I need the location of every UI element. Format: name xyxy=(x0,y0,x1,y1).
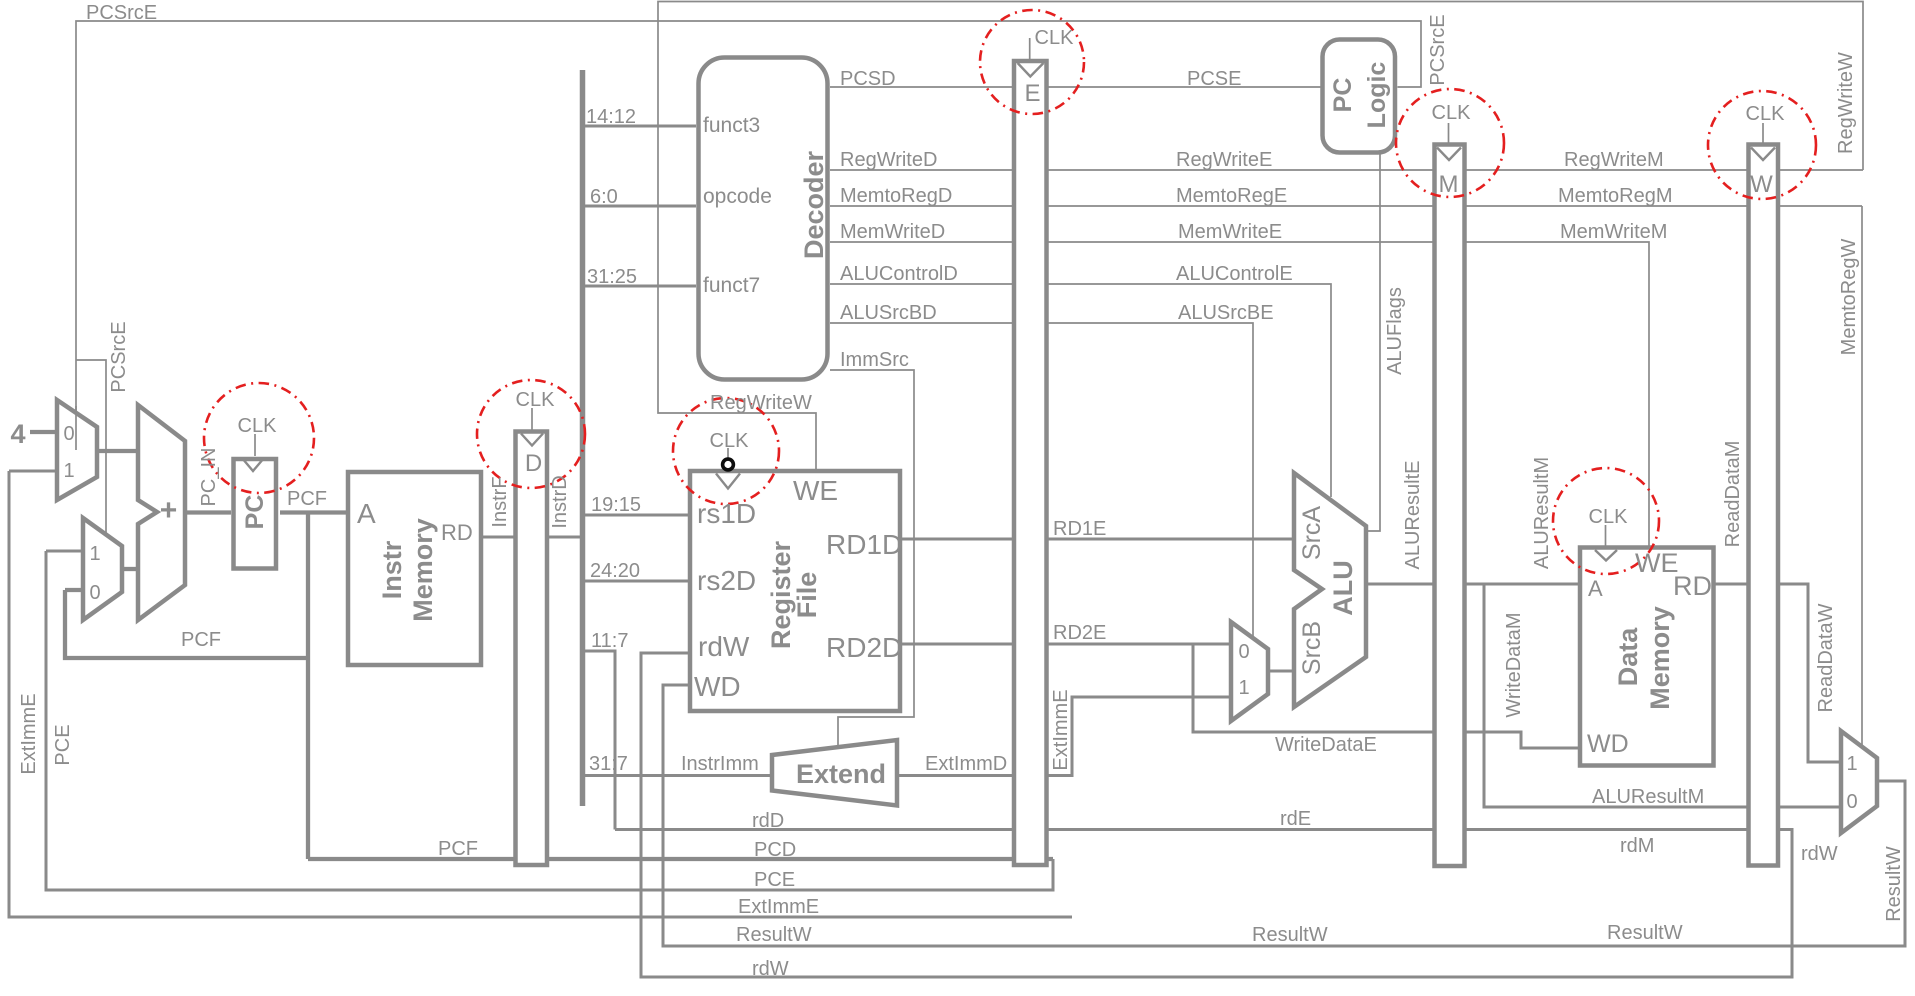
wire bus tap 24:20 xyxy=(584,580,688,583)
svg-text:CLK: CLK xyxy=(710,430,750,452)
svg-text:M: M xyxy=(1439,171,1459,198)
svg-text:WE: WE xyxy=(793,475,838,506)
svg-text:ALUSrcBD: ALUSrcBD xyxy=(840,302,937,324)
wire ALUResultE/ALUResultM to Data Memory A xyxy=(1366,583,1578,586)
svg-text:0: 0 xyxy=(1846,791,1857,813)
CLKDECOR xyxy=(76,10,1816,574)
clk circle PC xyxy=(204,383,314,493)
svg-text:WriteDataM: WriteDataM xyxy=(1503,612,1525,717)
data memory xyxy=(1580,548,1714,766)
svg-text:rdM: rdM xyxy=(1620,835,1654,857)
wire adder output PC_IN xyxy=(185,510,231,514)
wire ExtImmD from Extend to E xyxy=(897,697,1231,776)
svg-text:RD2D: RD2D xyxy=(826,632,902,663)
svg-text:ResultW: ResultW xyxy=(1252,924,1328,946)
bus instruction vertical xyxy=(580,70,586,806)
svg-text:CLK: CLK xyxy=(1746,103,1786,125)
svg-text:Memory: Memory xyxy=(1645,606,1675,710)
svg-text:PCSrcE: PCSrcE xyxy=(86,2,157,24)
svg-text:PCSE: PCSE xyxy=(1187,68,1241,90)
svg-text:rs2D: rs2D xyxy=(697,565,756,596)
wire mux M2 input 0 (PCF) xyxy=(65,590,308,658)
svg-text:RegWriteW: RegWriteW xyxy=(1835,52,1857,154)
svg-text:CLK: CLK xyxy=(238,415,278,437)
svg-text:funct7: funct7 xyxy=(703,274,760,297)
svg-text:PCE: PCE xyxy=(754,869,795,891)
clk tick M xyxy=(1448,123,1450,144)
mux SrcB (0 / 1) xyxy=(1231,622,1268,721)
svg-text:rdE: rdE xyxy=(1280,808,1311,830)
svg-text:WriteDataE: WriteDataE xyxy=(1275,734,1377,756)
wire PCSrcE select stub into mux M1 xyxy=(75,406,77,450)
wire bus tap 6:0 xyxy=(584,205,696,208)
register file xyxy=(690,471,900,711)
svg-text:Data: Data xyxy=(1613,627,1643,687)
wire PCF branch down xyxy=(306,513,310,860)
svg-text:1: 1 xyxy=(1238,677,1249,699)
clk triangle M xyxy=(1437,148,1461,161)
svg-text:14:12: 14:12 xyxy=(586,106,636,128)
clk circle W xyxy=(1708,91,1816,199)
svg-text:ALUResultM: ALUResultM xyxy=(1592,786,1704,808)
svg-text:ReadDataW: ReadDataW xyxy=(1815,603,1837,712)
pipeline register W xyxy=(1749,145,1779,866)
wire SrcB mux output xyxy=(1268,670,1294,673)
svg-text:MemWriteD: MemWriteD xyxy=(840,221,945,243)
svg-text:ALUFlags: ALUFlags xyxy=(1384,287,1406,375)
wire bus tap 11:7 to rdD xyxy=(584,651,615,830)
svg-text:PC: PC xyxy=(241,495,269,530)
wire ReadDataM/ReadDataW xyxy=(1714,584,1841,762)
svg-text:Logic: Logic xyxy=(1363,62,1391,129)
wire RegWrite D/E/M xyxy=(830,169,1863,171)
svg-text:ExtImmE: ExtImmE xyxy=(1050,689,1072,770)
clk triangle D xyxy=(521,434,543,446)
svg-text:opcode: opcode xyxy=(703,185,772,208)
svg-text:RD1E: RD1E xyxy=(1053,518,1106,540)
svg-text:rdD: rdD xyxy=(752,810,784,832)
wire RD to D register (InstrF/InstrD) xyxy=(481,536,584,539)
adder PC+ xyxy=(138,405,185,620)
svg-text:PC: PC xyxy=(1329,78,1357,113)
svg-text:ALUResultM: ALUResultM xyxy=(1531,457,1553,569)
pipeline register D xyxy=(516,432,548,866)
wire ALUFlags xyxy=(1366,154,1380,531)
PC logic xyxy=(1323,40,1396,153)
svg-text:1: 1 xyxy=(63,460,74,482)
svg-text:31:25: 31:25 xyxy=(587,266,637,288)
clk tick DM xyxy=(1605,525,1607,547)
svg-text:MemtoRegE: MemtoRegE xyxy=(1176,185,1287,207)
svg-text:ResultW: ResultW xyxy=(1883,846,1905,922)
svg-text:ALUSrcBE: ALUSrcBE xyxy=(1178,302,1274,324)
mux M2 (PCE / PCF) xyxy=(83,518,122,620)
svg-text:A: A xyxy=(1588,576,1603,601)
wire WriteDataE branch xyxy=(1193,644,1578,748)
svg-text:RD2E: RD2E xyxy=(1053,622,1106,644)
svg-text:PCSD: PCSD xyxy=(840,68,896,90)
svg-text:MemtoRegW: MemtoRegW xyxy=(1838,239,1860,356)
clk circle DM xyxy=(1553,468,1659,574)
svg-text:PC_IN: PC_IN xyxy=(198,448,220,507)
svg-text:ALU: ALU xyxy=(1328,560,1358,616)
svg-text:File: File xyxy=(792,572,822,619)
svg-text:CLK: CLK xyxy=(1035,27,1075,49)
clk circle E xyxy=(980,10,1084,114)
wire MemtoRegW select xyxy=(1861,206,1863,745)
wire result mux output ResultW xyxy=(663,685,1905,946)
svg-text:MemWriteE: MemWriteE xyxy=(1178,221,1282,243)
svg-text:ALUResultE: ALUResultE xyxy=(1402,461,1424,570)
svg-text:D: D xyxy=(525,450,542,477)
svg-text:SrcA: SrcA xyxy=(1298,506,1326,561)
extend unit xyxy=(772,740,897,806)
svg-text:31:7: 31:7 xyxy=(589,753,628,775)
clk tick E xyxy=(1029,38,1031,60)
svg-text:PCF: PCF xyxy=(181,629,221,651)
wire bus tap 31:7 InstrImm xyxy=(584,774,772,777)
svg-text:+: + xyxy=(160,494,178,527)
wire ALUControl D/E xyxy=(830,284,1331,497)
svg-text:Decoder: Decoder xyxy=(799,150,829,259)
svg-text:4: 4 xyxy=(10,419,25,449)
svg-text:rdW: rdW xyxy=(698,631,750,662)
svg-text:RegWriteW: RegWriteW xyxy=(710,392,812,414)
clk triangle RF xyxy=(716,474,740,489)
wire RegWriteW feedback xyxy=(658,2,1863,470)
wire ExtImmE feedback vertical xyxy=(9,471,1072,917)
wire MemWrite D/E/M xyxy=(830,242,1649,546)
clk triangle DM xyxy=(1595,550,1617,561)
svg-text:PCD: PCD xyxy=(754,839,796,861)
svg-text:24:20: 24:20 xyxy=(590,560,640,582)
clk circle D xyxy=(477,380,585,488)
svg-text:E: E xyxy=(1024,80,1040,107)
wire MemtoReg D/E/M xyxy=(830,205,1862,207)
clk circle M xyxy=(1396,89,1504,197)
svg-text:CLK: CLK xyxy=(516,389,556,411)
svg-text:Extend: Extend xyxy=(796,759,886,789)
svg-text:RD: RD xyxy=(1673,571,1712,601)
svg-text:19:15: 19:15 xyxy=(591,494,641,516)
clk bubble RF xyxy=(723,459,734,470)
clk triangle W xyxy=(1751,148,1775,161)
svg-text:Memory: Memory xyxy=(408,518,438,622)
svg-text:InstrF: InstrF xyxy=(489,476,511,527)
svg-text:rs1D: rs1D xyxy=(697,498,756,529)
wire ALUResultM branch to result mux xyxy=(1484,584,1841,807)
svg-text:MemtoRegD: MemtoRegD xyxy=(840,185,952,207)
decoder xyxy=(699,58,828,380)
clk tick D xyxy=(531,408,533,431)
svg-text:0: 0 xyxy=(89,582,100,604)
svg-text:funct3: funct3 xyxy=(703,114,760,137)
svg-text:SrcB: SrcB xyxy=(1298,621,1326,675)
wire PCE feedback xyxy=(46,551,1053,890)
clk tick PC xyxy=(254,434,256,456)
svg-text:InstrImm: InstrImm xyxy=(681,753,759,775)
svg-text:WD: WD xyxy=(1587,730,1629,758)
svg-text:0: 0 xyxy=(63,423,74,445)
wire bus tap 19:15 xyxy=(584,514,688,517)
svg-text:rdW: rdW xyxy=(1801,843,1838,865)
wire rdD/rdE/rdM through E M W xyxy=(615,653,1792,977)
wire ALUSrcB D/E xyxy=(830,323,1253,638)
wire bus tap 14:12 xyxy=(584,125,696,128)
svg-text:ReadDataM: ReadDataM xyxy=(1722,441,1744,548)
wire RD2D/RD2E to SrcB mux xyxy=(902,643,1231,646)
svg-text:0: 0 xyxy=(1238,641,1249,663)
svg-text:ALUControlD: ALUControlD xyxy=(840,263,958,285)
svg-text:WD: WD xyxy=(694,671,741,702)
svg-text:RegWriteM: RegWriteM xyxy=(1564,149,1664,171)
wire RD1D/RD1E to ALU SrcA xyxy=(902,538,1294,541)
mux Result (ReadDataW / ALUResultM) xyxy=(1841,731,1877,833)
svg-text:rdW: rdW xyxy=(752,958,789,980)
svg-text:W: W xyxy=(1750,171,1773,198)
clk triangle PC xyxy=(242,458,264,471)
svg-text:PCSrcE: PCSrcE xyxy=(1427,14,1449,85)
svg-text:6:0: 6:0 xyxy=(590,186,618,208)
svg-text:ALUControlE: ALUControlE xyxy=(1176,263,1293,285)
instruction memory xyxy=(348,472,481,665)
svg-text:RegWriteD: RegWriteD xyxy=(840,149,937,171)
wire mux M2 output to adder xyxy=(122,567,138,571)
svg-text:CLK: CLK xyxy=(1589,506,1629,528)
wire constant 4 input xyxy=(30,430,57,434)
clk tick RF xyxy=(727,448,729,458)
wire PCSrcE select xyxy=(76,21,1421,534)
clk tick W xyxy=(1762,123,1764,144)
svg-text:MemtoRegM: MemtoRegM xyxy=(1558,185,1672,207)
svg-text:RD1D: RD1D xyxy=(826,529,902,560)
svg-text:ResultW: ResultW xyxy=(736,924,812,946)
svg-text:1: 1 xyxy=(89,543,100,565)
svg-text:RD: RD xyxy=(441,520,473,545)
svg-text:PCF: PCF xyxy=(287,488,327,510)
pipeline register M xyxy=(1435,145,1465,867)
clk triangle E xyxy=(1018,63,1044,77)
pipeline register E xyxy=(1014,61,1047,865)
wire mux M1 output to adder xyxy=(97,449,138,453)
wire mux M1 input 1 (ExtImmE) xyxy=(9,470,57,473)
mux M1 (4 / ExtImmE) xyxy=(57,400,97,500)
svg-text:ExtImmD: ExtImmD xyxy=(925,753,1007,775)
svg-text:ExtImmE: ExtImmE xyxy=(18,693,40,774)
svg-text:1: 1 xyxy=(1846,753,1857,775)
svg-text:CLK: CLK xyxy=(1432,102,1472,124)
clk circle RF xyxy=(673,398,779,504)
register PC xyxy=(234,459,277,569)
svg-text:ImmSrc: ImmSrc xyxy=(840,349,909,371)
svg-text:PCSrcE: PCSrcE xyxy=(108,321,130,392)
ALU xyxy=(1294,473,1366,707)
svg-text:ExtImmE: ExtImmE xyxy=(738,896,819,918)
svg-text:PCE: PCE xyxy=(52,724,74,765)
wire bus tap 31:25 xyxy=(584,285,696,288)
svg-text:A: A xyxy=(357,498,376,529)
svg-text:RegWriteE: RegWriteE xyxy=(1176,149,1272,171)
svg-text:ResultW: ResultW xyxy=(1607,922,1683,944)
svg-text:WE: WE xyxy=(1635,548,1679,578)
svg-text:11:7: 11:7 xyxy=(591,630,628,652)
svg-text:InstrD: InstrD xyxy=(549,475,571,528)
wire mux M2 input 1 (PCE) xyxy=(46,550,83,553)
wire PCF/PCD into D and E registers xyxy=(308,857,1053,861)
wire PCF from PC to Instr Memory xyxy=(280,510,346,514)
svg-text:PCF: PCF xyxy=(438,838,478,860)
wire ImmSrc to Extend xyxy=(830,370,914,746)
wire PCSD/PCSE xyxy=(830,86,1321,88)
svg-text:MemWriteM: MemWriteM xyxy=(1560,221,1667,243)
svg-text:Instr: Instr xyxy=(377,540,407,599)
